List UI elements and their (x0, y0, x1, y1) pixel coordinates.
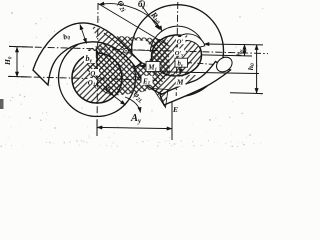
framed box for label by gear 2 (175, 58, 188, 67)
label h0 (246, 63, 256, 70)
hy dimension line (244, 44, 246, 55)
center dot gear2 (176, 45, 178, 47)
centerline vertical gear 2 (176, 2, 178, 96)
engagement line (104, 33, 159, 76)
cap axis dash-dot (186, 63, 220, 65)
band 2 end cap (214, 54, 235, 75)
by arrow gear 1 (96, 49, 98, 77)
H0 extension line upper (9, 45, 33, 48)
P line (127, 49, 156, 52)
label hy (234, 49, 244, 56)
crosshatch zone (contact region) (87, 36, 170, 96)
phi2i arc (99, 4, 162, 31)
radial line C2 to top of left centerline (98, 4, 170, 47)
base circle gear 2 arc (150, 26, 203, 52)
H0 extension line lower (9, 75, 30, 78)
Ay dimension line (97, 127, 172, 128)
centerline horizontal gear 2 (upper axis, dash-dot, tilted) (9, 46, 268, 53)
E1 leader (138, 77, 143, 78)
reference line root level (230, 92, 263, 95)
label b0 (62, 31, 71, 43)
label Rb0 gear 2 (147, 9, 164, 26)
contact point marker (124, 49, 129, 54)
Rb0 leader right (141, 5, 160, 30)
reference line through point M (162, 72, 259, 74)
reference line upper (tooth tip level) with leader arrow (204, 43, 263, 46)
centerline vertical gear 1 (97, 3, 98, 136)
scan speckles (3, 4, 264, 145)
white halos under point labels (88, 37, 186, 113)
Rb0 leader left (104, 89, 126, 106)
halo for label by gear 1 (84, 51, 96, 63)
Ay extension line left (axis O1) (96, 120, 98, 136)
svg-text:O′: O′ (177, 39, 184, 46)
svg-text:E: E (172, 105, 178, 114)
hatch strip under ellipse (153, 74, 196, 95)
by arrow gear 2 (179, 67, 182, 74)
big circle gear 2 (132, 5, 224, 97)
svg-text:M: M (176, 78, 184, 87)
phi2L arc (125, 97, 141, 113)
centerline horizontal gear 1 (lower axis, dash-dot) (8, 76, 158, 80)
corner scan noise (9, 82, 262, 140)
hatched triangle near E (153, 89, 168, 108)
bottom scan noise (1, 140, 262, 147)
hatch in right part of band 1 (92, 27, 133, 63)
band 1 (worm thread, upper-left) (33, 23, 141, 85)
reference line pitch level (202, 55, 252, 56)
h0 dimension line (256, 45, 258, 94)
upper lobe gear2 thread (179, 34, 205, 47)
framed box for label M1 (146, 62, 160, 72)
base circle gear 1 (Rb0) (59, 40, 136, 117)
scan smudge left edge (0, 99, 4, 109)
label phi2L (131, 89, 147, 105)
band 2 (worm thread, lower-right) (160, 62, 231, 106)
label phi2i (114, 0, 130, 14)
M1 leader (140, 65, 147, 67)
label Rb0 gear 1 (100, 81, 117, 98)
hatched core ellipse gear 2 (150, 33, 203, 77)
core circle gear 1 hatched (72, 53, 122, 103)
svg-text:б): б) (138, 0, 146, 9)
label H0 (3, 56, 13, 66)
H0 dimension line (16, 47, 18, 77)
b0 width marker (80, 25, 87, 44)
Ay extension line right (through point E) (171, 102, 173, 141)
